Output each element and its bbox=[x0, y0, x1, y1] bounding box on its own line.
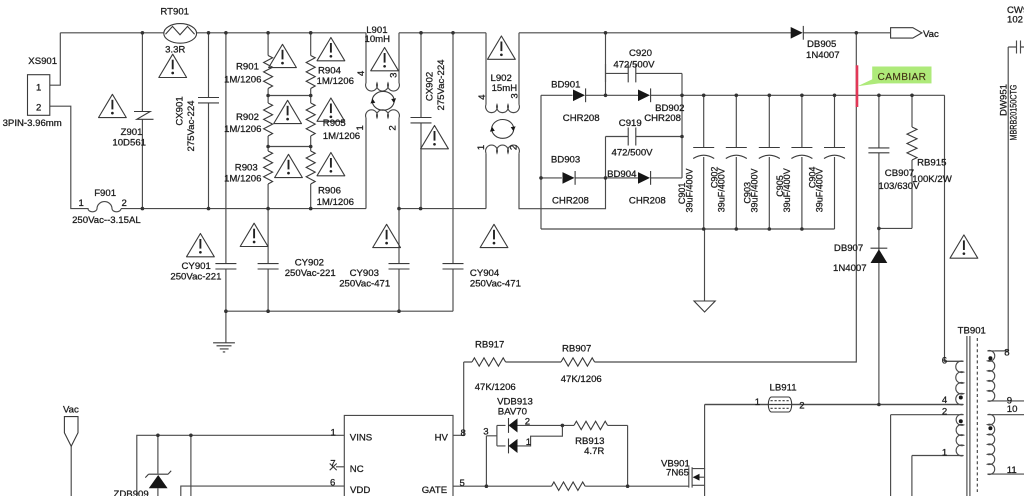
svg-text:39uF/400V: 39uF/400V bbox=[815, 168, 825, 212]
svg-text:1M/1206: 1M/1206 bbox=[224, 74, 261, 85]
svg-text:RB915: RB915 bbox=[917, 158, 946, 169]
svg-text:1: 1 bbox=[526, 437, 531, 448]
svg-text:CHR208: CHR208 bbox=[629, 195, 666, 206]
svg-text:7N65: 7N65 bbox=[666, 468, 689, 479]
svg-text:47K/1206: 47K/1206 bbox=[475, 382, 516, 393]
svg-text:3PIN-3.96mm: 3PIN-3.96mm bbox=[3, 118, 62, 129]
svg-text:ZDB909: ZDB909 bbox=[114, 489, 149, 496]
svg-text:R903: R903 bbox=[235, 162, 258, 173]
svg-text:DB905: DB905 bbox=[807, 39, 836, 50]
svg-text:VDD: VDD bbox=[350, 485, 370, 496]
svg-text:10mH: 10mH bbox=[365, 34, 391, 45]
svg-text:1M/1206: 1M/1206 bbox=[224, 173, 261, 184]
svg-text:3.3R: 3.3R bbox=[165, 45, 185, 56]
svg-text:CY902: CY902 bbox=[295, 258, 324, 269]
svg-text:275Vac-224: 275Vac-224 bbox=[436, 59, 447, 111]
svg-text:11: 11 bbox=[1007, 465, 1017, 476]
svg-text:RT901: RT901 bbox=[160, 6, 189, 17]
svg-text:39uF/400V: 39uF/400V bbox=[684, 168, 694, 212]
svg-text:CHR208: CHR208 bbox=[644, 113, 681, 124]
svg-text:BD903: BD903 bbox=[551, 154, 580, 165]
svg-text:RB907: RB907 bbox=[562, 344, 591, 355]
svg-text:3: 3 bbox=[483, 427, 488, 438]
svg-text:C919: C919 bbox=[619, 118, 642, 129]
svg-text:4: 4 bbox=[356, 70, 367, 76]
svg-text:6: 6 bbox=[330, 478, 335, 489]
svg-text:LB911: LB911 bbox=[770, 383, 797, 394]
svg-text:CY901: CY901 bbox=[182, 261, 211, 272]
svg-text:XS901: XS901 bbox=[28, 56, 57, 67]
svg-text:CY903: CY903 bbox=[350, 268, 379, 279]
svg-text:10: 10 bbox=[1007, 404, 1018, 415]
svg-text:CAMBIAR: CAMBIAR bbox=[878, 72, 927, 83]
svg-text:CY904: CY904 bbox=[470, 268, 500, 279]
svg-text:1N4007: 1N4007 bbox=[806, 50, 840, 61]
svg-text:250Vac-221: 250Vac-221 bbox=[170, 272, 221, 283]
svg-text:1M/1206: 1M/1206 bbox=[224, 124, 261, 135]
svg-text:7: 7 bbox=[330, 458, 335, 469]
svg-text:F901: F901 bbox=[94, 188, 116, 199]
svg-text:R902: R902 bbox=[236, 112, 259, 123]
svg-text:BD901: BD901 bbox=[551, 80, 580, 91]
svg-text:1M/1206: 1M/1206 bbox=[323, 131, 360, 142]
svg-text:2: 2 bbox=[122, 198, 127, 209]
svg-text:R906: R906 bbox=[318, 185, 341, 196]
svg-text:8: 8 bbox=[1004, 347, 1009, 358]
svg-text:2: 2 bbox=[36, 103, 41, 114]
svg-text:GATE: GATE bbox=[422, 485, 447, 496]
svg-text:472/500V: 472/500V bbox=[612, 148, 654, 159]
svg-text:472/500V: 472/500V bbox=[613, 59, 655, 70]
svg-text:250Vac-471: 250Vac-471 bbox=[470, 279, 521, 290]
svg-text:NC: NC bbox=[350, 464, 364, 475]
svg-text:15mH: 15mH bbox=[492, 83, 518, 94]
svg-text:DB907: DB907 bbox=[834, 243, 863, 254]
svg-text:HV: HV bbox=[435, 432, 449, 443]
svg-text:MBRB20150CTG: MBRB20150CTG bbox=[1008, 85, 1018, 141]
svg-text:BAV70: BAV70 bbox=[498, 407, 527, 418]
svg-text:CB907: CB907 bbox=[885, 168, 914, 179]
svg-text:1: 1 bbox=[331, 428, 336, 439]
svg-text:1: 1 bbox=[755, 397, 760, 408]
svg-text:2: 2 bbox=[942, 407, 947, 418]
svg-text:39uF/400V: 39uF/400V bbox=[782, 168, 792, 212]
svg-text:250Vac--3.15AL: 250Vac--3.15AL bbox=[72, 215, 141, 226]
svg-text:3: 3 bbox=[389, 73, 400, 78]
svg-text:250Vac-471: 250Vac-471 bbox=[339, 279, 390, 290]
svg-text:275Vac-224: 275Vac-224 bbox=[186, 100, 197, 152]
svg-text:CHR208: CHR208 bbox=[552, 195, 589, 206]
svg-text:5: 5 bbox=[460, 478, 465, 489]
svg-text:39uF/400V: 39uF/400V bbox=[750, 168, 760, 212]
svg-text:250Vac-221: 250Vac-221 bbox=[285, 268, 336, 279]
svg-text:C920: C920 bbox=[629, 48, 652, 59]
svg-text:6: 6 bbox=[942, 355, 947, 366]
svg-text:R905: R905 bbox=[323, 118, 346, 129]
svg-text:TB901: TB901 bbox=[958, 326, 986, 337]
svg-text:1: 1 bbox=[942, 447, 947, 458]
svg-text:4: 4 bbox=[942, 395, 948, 406]
svg-text:1: 1 bbox=[79, 198, 84, 209]
svg-text:2: 2 bbox=[387, 125, 398, 130]
svg-text:Vac: Vac bbox=[923, 29, 939, 40]
svg-text:VDB913: VDB913 bbox=[497, 396, 533, 407]
svg-text:4.7R: 4.7R bbox=[584, 446, 604, 457]
svg-text:1M/1206: 1M/1206 bbox=[317, 76, 354, 87]
svg-text:1: 1 bbox=[36, 82, 41, 93]
svg-text:RB917: RB917 bbox=[475, 339, 504, 350]
svg-text:VINS: VINS bbox=[350, 432, 372, 443]
svg-text:1: 1 bbox=[476, 145, 487, 150]
svg-text:Vac: Vac bbox=[63, 405, 79, 416]
svg-text:CX902: CX902 bbox=[425, 72, 436, 101]
svg-text:CX901: CX901 bbox=[175, 96, 186, 125]
svg-text:1N4007: 1N4007 bbox=[833, 263, 867, 274]
svg-text:39uF/400V: 39uF/400V bbox=[717, 168, 727, 212]
svg-text:4: 4 bbox=[477, 94, 488, 100]
svg-text:102: 102 bbox=[1007, 15, 1023, 26]
svg-text:2: 2 bbox=[799, 401, 804, 412]
svg-text:8: 8 bbox=[461, 428, 466, 439]
svg-text:1: 1 bbox=[355, 125, 366, 130]
svg-text:1M/1206: 1M/1206 bbox=[317, 197, 354, 208]
svg-text:2: 2 bbox=[525, 416, 530, 427]
svg-text:BD904: BD904 bbox=[607, 169, 637, 180]
svg-text:3: 3 bbox=[510, 93, 521, 98]
svg-text:10D561: 10D561 bbox=[112, 137, 146, 148]
svg-text:R901: R901 bbox=[236, 61, 259, 72]
svg-text:47K/1206: 47K/1206 bbox=[561, 374, 602, 385]
svg-text:100K/2W: 100K/2W bbox=[912, 174, 952, 185]
svg-text:R904: R904 bbox=[318, 65, 342, 76]
svg-text:CHR208: CHR208 bbox=[563, 113, 600, 124]
svg-text:2: 2 bbox=[509, 145, 520, 150]
